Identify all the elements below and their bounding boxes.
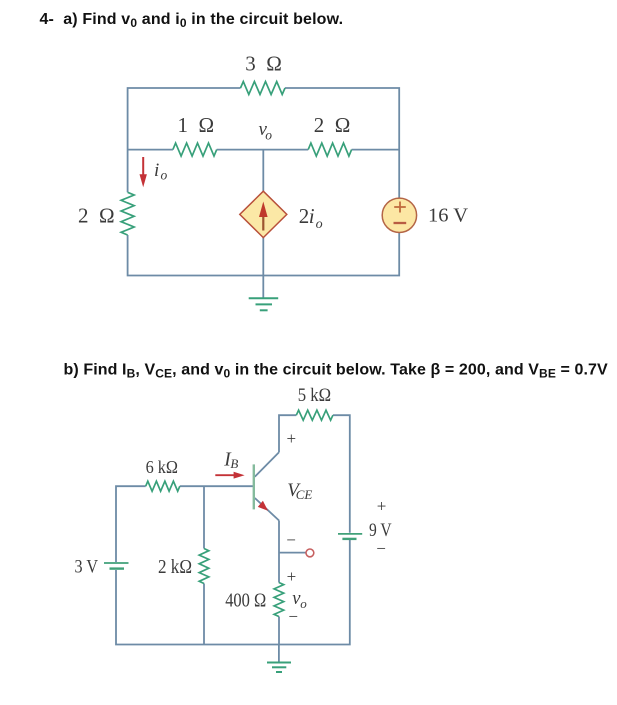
- svg-text:+: +: [377, 497, 387, 516]
- svg-text:−: −: [286, 530, 296, 549]
- svg-text:4- a) Find v0 and i0 in the c: 4- a) Find v0 and i0 in the circuit belo…: [40, 11, 344, 30]
- svg-text:+: +: [287, 429, 297, 448]
- svg-text:9 V: 9 V: [369, 520, 392, 541]
- svg-text:i: i: [154, 160, 159, 181]
- svg-text:B: B: [230, 456, 238, 471]
- svg-text:3 V: 3 V: [75, 557, 99, 578]
- svg-text:2 Ω: 2 Ω: [314, 113, 351, 137]
- svg-text:o: o: [161, 168, 168, 183]
- svg-text:6 kΩ: 6 kΩ: [146, 457, 178, 477]
- svg-text:400 Ω: 400 Ω: [225, 590, 266, 611]
- svg-text:2 Ω: 2 Ω: [78, 203, 115, 227]
- svg-text:3 Ω: 3 Ω: [245, 51, 282, 75]
- svg-text:1 Ω: 1 Ω: [177, 113, 214, 137]
- svg-text:CE: CE: [296, 487, 313, 502]
- svg-text:o: o: [316, 217, 323, 232]
- svg-text:+: +: [287, 567, 297, 586]
- svg-text:o: o: [300, 596, 307, 611]
- svg-text:i: i: [309, 204, 315, 228]
- svg-text:b) Find IB, VCE, and v0 in the: b) Find IB, VCE, and v0 in the circuit b…: [64, 361, 608, 380]
- svg-text:2 kΩ: 2 kΩ: [158, 557, 192, 578]
- svg-text:o: o: [265, 128, 272, 143]
- svg-text:−: −: [376, 539, 386, 558]
- svg-text:−: −: [288, 607, 298, 626]
- svg-text:5 kΩ: 5 kΩ: [298, 386, 331, 406]
- svg-text:2: 2: [299, 204, 310, 228]
- svg-text:16 V: 16 V: [428, 205, 468, 227]
